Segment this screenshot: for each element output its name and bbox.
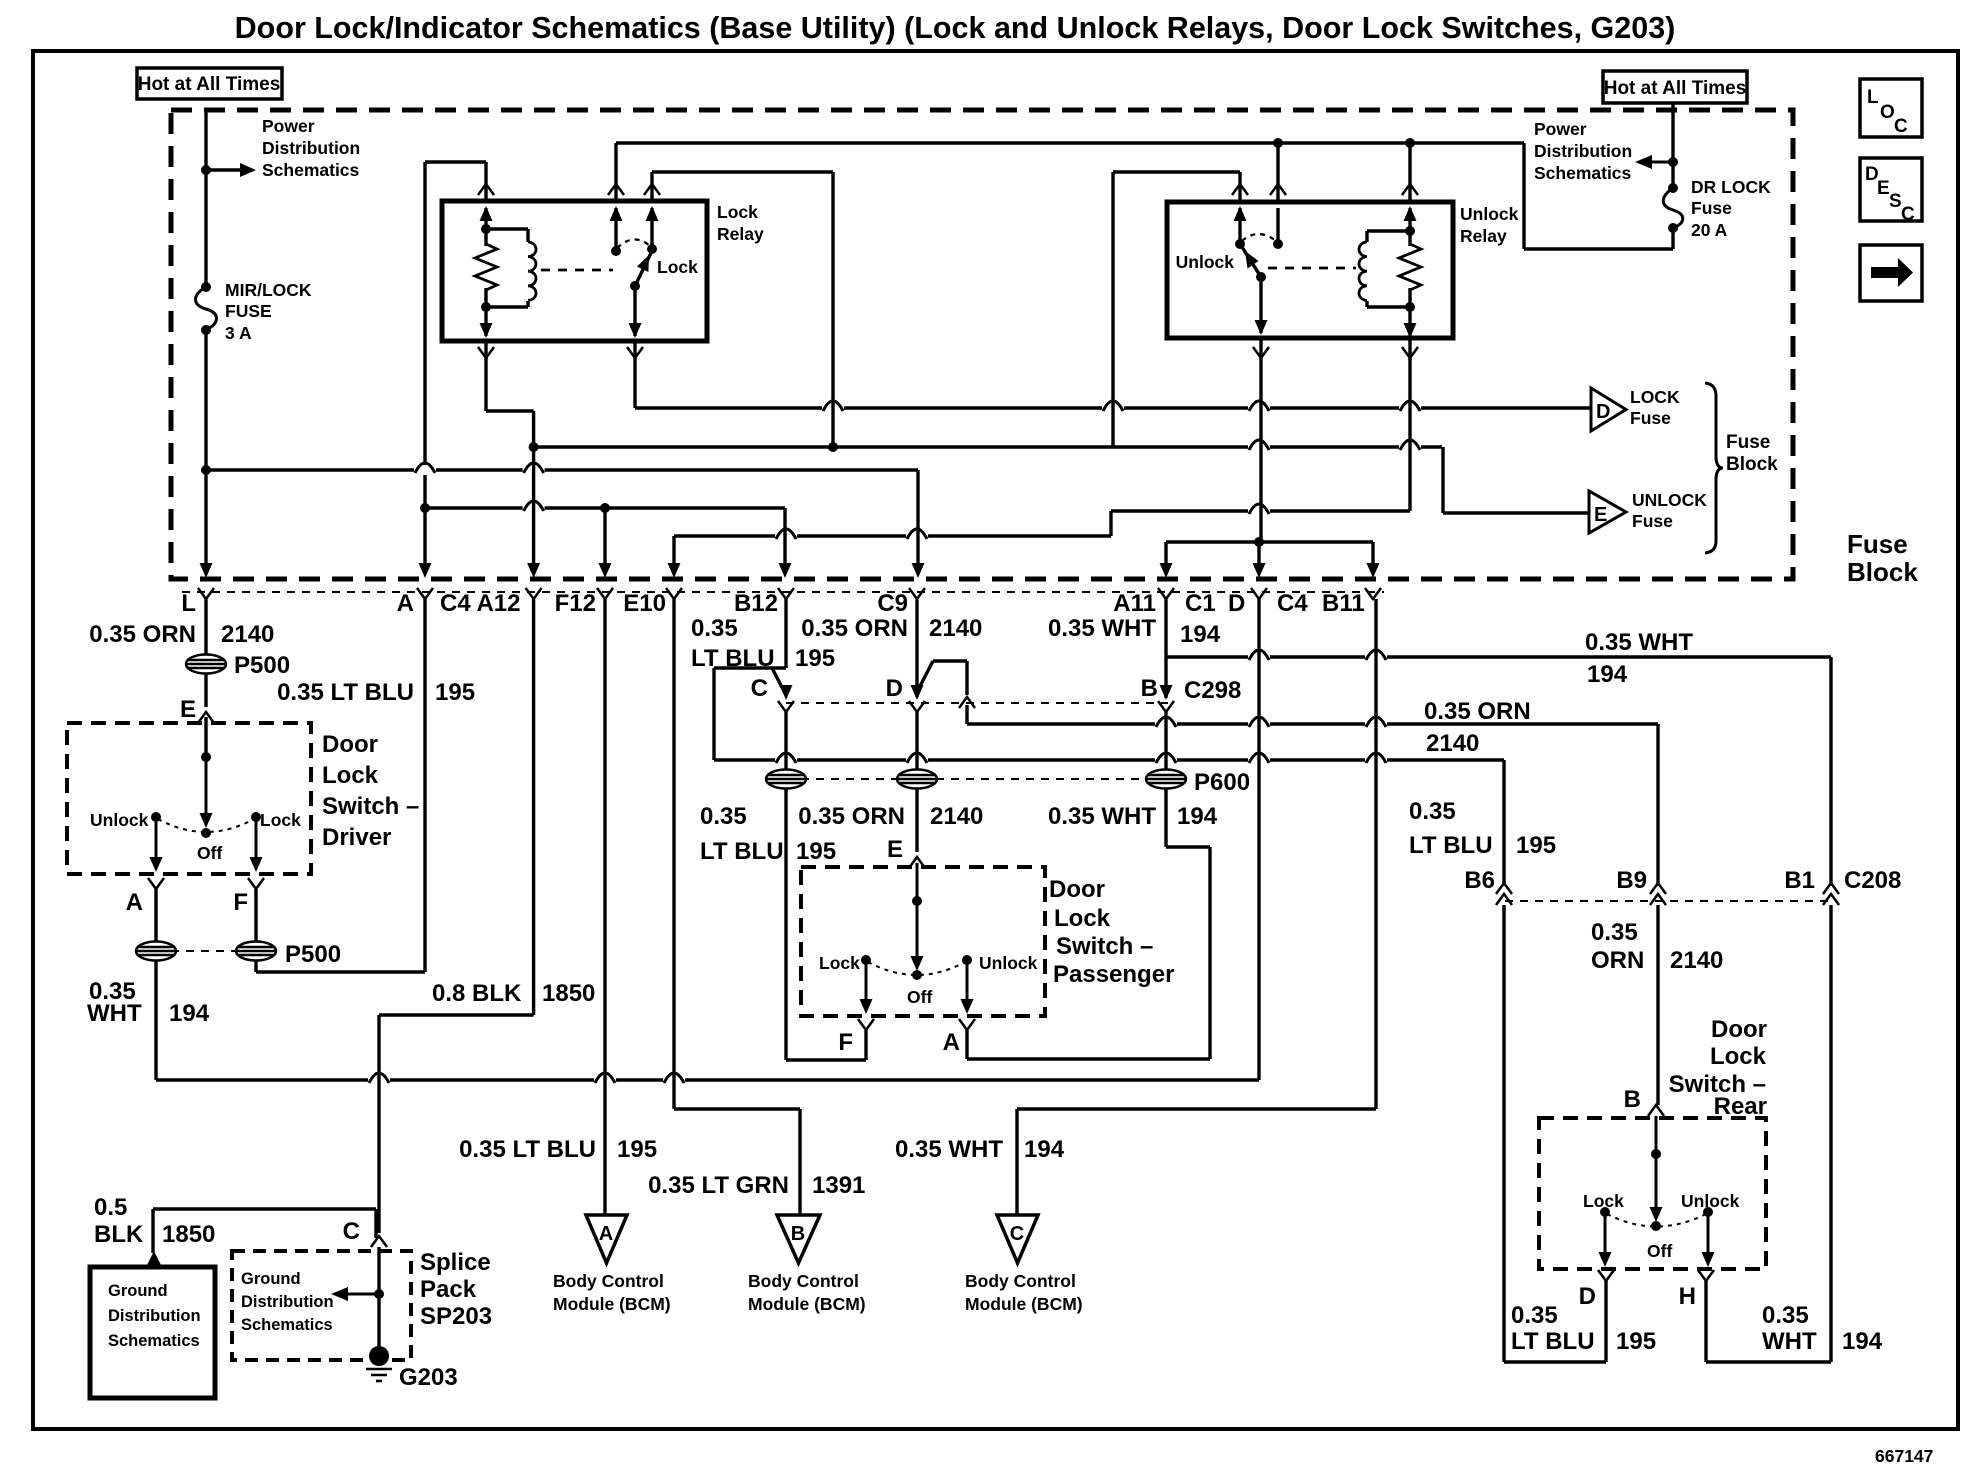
svg-text:0.35: 0.35	[1409, 798, 1456, 825]
svg-text:E: E	[1594, 504, 1607, 526]
svg-text:Door Lock/Indicator Schematics: Door Lock/Indicator Schematics (Base Uti…	[235, 11, 1676, 45]
svg-text:C: C	[343, 1218, 360, 1245]
svg-text:0.8 BLK: 0.8 BLK	[432, 980, 522, 1007]
svg-text:C208: C208	[1844, 867, 1901, 894]
svg-text:0.5: 0.5	[94, 1194, 127, 1221]
svg-text:1391: 1391	[812, 1172, 865, 1199]
svg-text:194: 194	[1587, 661, 1628, 688]
svg-text:SP203: SP203	[420, 1303, 492, 1330]
svg-text:C9: C9	[877, 590, 908, 617]
svg-text:Off: Off	[1647, 1241, 1672, 1261]
svg-text:3 A: 3 A	[225, 323, 252, 343]
svg-text:C4: C4	[1277, 590, 1308, 617]
svg-text:0.35 ORN: 0.35 ORN	[89, 621, 196, 648]
svg-text:Lock: Lock	[717, 202, 758, 222]
svg-text:Door: Door	[1711, 1016, 1767, 1043]
svg-text:Unlock: Unlock	[1681, 1191, 1740, 1211]
svg-text:0.35 WHT: 0.35 WHT	[1048, 615, 1156, 642]
svg-text:A: A	[126, 889, 143, 916]
svg-text:C298: C298	[1184, 677, 1241, 704]
svg-text:E: E	[887, 836, 903, 863]
svg-text:194: 194	[169, 1000, 210, 1027]
svg-text:194: 194	[1024, 1136, 1065, 1163]
svg-text:WHT: WHT	[1762, 1328, 1817, 1355]
svg-text:C: C	[1894, 116, 1908, 137]
svg-text:Unlock: Unlock	[90, 810, 149, 830]
svg-text:0.35: 0.35	[700, 803, 747, 830]
svg-text:Ground: Ground	[241, 1270, 301, 1288]
svg-text:Hot at All Times: Hot at All Times	[1604, 78, 1747, 99]
svg-text:Fuse: Fuse	[1847, 529, 1908, 559]
svg-text:BLK: BLK	[94, 1221, 144, 1248]
svg-text:MIR/LOCK: MIR/LOCK	[225, 280, 312, 300]
svg-text:Off: Off	[197, 843, 222, 863]
svg-text:0.35 WHT: 0.35 WHT	[1585, 629, 1693, 656]
svg-text:Driver: Driver	[322, 824, 391, 851]
svg-text:Power: Power	[1534, 119, 1587, 139]
svg-text:WHT: WHT	[87, 1000, 142, 1027]
svg-text:H: H	[1679, 1283, 1696, 1310]
svg-text:Relay: Relay	[1460, 226, 1507, 246]
svg-text:Unlock: Unlock	[1176, 252, 1235, 272]
svg-text:Body Control: Body Control	[965, 1271, 1076, 1291]
svg-text:Schematics: Schematics	[108, 1332, 200, 1350]
svg-text:2140: 2140	[929, 615, 982, 642]
svg-text:LT BLU: LT BLU	[1511, 1328, 1595, 1355]
svg-text:A: A	[943, 1029, 960, 1056]
svg-text:Distribution: Distribution	[1534, 141, 1632, 161]
svg-text:B9: B9	[1616, 867, 1647, 894]
svg-text:B6: B6	[1464, 867, 1495, 894]
svg-text:Module (BCM): Module (BCM)	[965, 1294, 1083, 1314]
svg-text:P500: P500	[285, 941, 341, 968]
svg-text:D: D	[886, 675, 903, 702]
svg-text:Lock: Lock	[657, 257, 698, 277]
svg-text:Distribution: Distribution	[241, 1293, 334, 1311]
svg-text:2140: 2140	[1426, 730, 1479, 757]
svg-text:Lock: Lock	[260, 810, 301, 830]
svg-text:2140: 2140	[1670, 947, 1723, 974]
svg-text:Body Control: Body Control	[553, 1271, 664, 1291]
svg-text:A: A	[599, 1223, 613, 1245]
svg-text:Lock: Lock	[1583, 1191, 1624, 1211]
svg-text:B12: B12	[734, 590, 778, 617]
svg-text:Unlock: Unlock	[1460, 204, 1519, 224]
svg-text:0.35 ORN: 0.35 ORN	[801, 615, 908, 642]
svg-text:2140: 2140	[930, 803, 983, 830]
svg-text:Hot at All Times: Hot at All Times	[138, 74, 281, 95]
svg-text:Distribution: Distribution	[262, 138, 360, 158]
svg-text:0.35 LT BLU: 0.35 LT BLU	[459, 1136, 596, 1163]
svg-text:194: 194	[1842, 1328, 1883, 1355]
svg-text:Schematics: Schematics	[262, 160, 360, 180]
svg-text:C1: C1	[1185, 590, 1216, 617]
svg-text:Switch –: Switch –	[322, 793, 419, 820]
svg-text:195: 195	[1616, 1328, 1656, 1355]
svg-text:0.35 WHT: 0.35 WHT	[895, 1136, 1003, 1163]
svg-text:0.35: 0.35	[1591, 919, 1638, 946]
svg-text:Passenger: Passenger	[1053, 961, 1174, 988]
svg-text:0.35 ORN: 0.35 ORN	[1424, 698, 1531, 725]
svg-text:F: F	[838, 1029, 853, 1056]
svg-text:Splice: Splice	[420, 1249, 491, 1276]
svg-text:E: E	[1877, 178, 1890, 199]
svg-text:0.35 ORN: 0.35 ORN	[798, 803, 905, 830]
svg-text:Schematics: Schematics	[1534, 163, 1632, 183]
svg-text:Block: Block	[1726, 454, 1778, 475]
svg-text:B11: B11	[1322, 590, 1365, 617]
svg-text:195: 195	[617, 1136, 657, 1163]
svg-text:DR LOCK: DR LOCK	[1691, 177, 1771, 197]
svg-text:F: F	[233, 889, 248, 916]
svg-text:Module (BCM): Module (BCM)	[748, 1294, 866, 1314]
svg-text:1850: 1850	[542, 980, 595, 1007]
svg-text:B1: B1	[1784, 867, 1815, 894]
svg-text:Unlock: Unlock	[979, 953, 1038, 973]
svg-text:Switch –: Switch –	[1056, 933, 1153, 960]
svg-text:A: A	[397, 590, 414, 617]
svg-text:Fuse: Fuse	[1630, 408, 1671, 428]
svg-text:0.35: 0.35	[1511, 1302, 1558, 1329]
svg-text:Lock: Lock	[1710, 1043, 1767, 1070]
svg-text:0.35 LT GRN: 0.35 LT GRN	[648, 1172, 789, 1199]
svg-text:D: D	[1228, 590, 1245, 617]
svg-text:G203: G203	[399, 1364, 458, 1391]
svg-text:194: 194	[1177, 803, 1218, 830]
svg-text:Lock: Lock	[819, 953, 860, 973]
svg-text:ORN: ORN	[1591, 947, 1644, 974]
svg-text:Body Control: Body Control	[748, 1271, 859, 1291]
svg-text:C4 A12: C4 A12	[440, 590, 520, 617]
svg-text:Lock: Lock	[322, 762, 379, 789]
svg-text:Fuse: Fuse	[1691, 198, 1732, 218]
svg-text:20 A: 20 A	[1691, 220, 1728, 240]
svg-text:2140: 2140	[221, 621, 274, 648]
svg-text:1850: 1850	[162, 1221, 215, 1248]
svg-text:Door: Door	[322, 731, 378, 758]
svg-text:Distribution: Distribution	[108, 1307, 201, 1325]
svg-text:Fuse: Fuse	[1632, 511, 1673, 531]
svg-text:LT BLU: LT BLU	[700, 838, 784, 865]
svg-text:Lock: Lock	[1054, 905, 1111, 932]
svg-text:Schematics: Schematics	[241, 1316, 333, 1334]
svg-text:E: E	[180, 696, 196, 723]
svg-text:195: 195	[796, 838, 836, 865]
svg-text:C: C	[1010, 1223, 1024, 1245]
svg-text:C: C	[751, 675, 768, 702]
svg-text:195: 195	[435, 679, 475, 706]
svg-text:C: C	[1901, 204, 1915, 225]
svg-text:195: 195	[1516, 832, 1556, 859]
svg-text:667147: 667147	[1875, 1446, 1933, 1466]
svg-text:A11: A11	[1113, 590, 1156, 617]
svg-text:B: B	[1141, 675, 1158, 702]
svg-text:0.35 LT BLU: 0.35 LT BLU	[277, 679, 414, 706]
svg-text:Door: Door	[1049, 876, 1105, 903]
svg-text:D: D	[1596, 401, 1610, 423]
svg-text:Fuse: Fuse	[1726, 432, 1770, 453]
svg-text:Off: Off	[907, 987, 932, 1007]
svg-text:Power: Power	[262, 116, 315, 136]
svg-text:Module (BCM): Module (BCM)	[553, 1294, 671, 1314]
svg-text:Block: Block	[1847, 557, 1918, 587]
svg-text:B: B	[1624, 1086, 1641, 1113]
svg-text:Relay: Relay	[717, 224, 764, 244]
svg-text:195: 195	[795, 645, 835, 672]
svg-text:F12: F12	[555, 590, 596, 617]
svg-text:LT BLU: LT BLU	[1409, 832, 1493, 859]
svg-text:Ground: Ground	[108, 1282, 168, 1300]
svg-text:S: S	[1889, 191, 1902, 212]
svg-text:B: B	[791, 1223, 805, 1245]
svg-text:P500: P500	[234, 652, 290, 679]
svg-text:0.35: 0.35	[691, 615, 738, 642]
svg-text:E10: E10	[623, 590, 666, 617]
svg-text:Rear: Rear	[1714, 1093, 1767, 1120]
svg-text:L: L	[1867, 87, 1879, 108]
svg-text:UNLOCK: UNLOCK	[1632, 490, 1707, 510]
svg-text:194: 194	[1180, 621, 1221, 648]
svg-text:P600: P600	[1194, 769, 1250, 796]
svg-text:0.35 WHT: 0.35 WHT	[1048, 803, 1156, 830]
svg-text:LT BLU: LT BLU	[691, 645, 775, 672]
svg-text:FUSE: FUSE	[225, 301, 272, 321]
svg-text:O: O	[1880, 102, 1895, 123]
svg-text:Pack: Pack	[420, 1276, 477, 1303]
svg-text:LOCK: LOCK	[1630, 387, 1680, 407]
svg-text:0.35: 0.35	[1762, 1302, 1809, 1329]
svg-text:L: L	[181, 590, 196, 617]
svg-text:D: D	[1579, 1283, 1596, 1310]
